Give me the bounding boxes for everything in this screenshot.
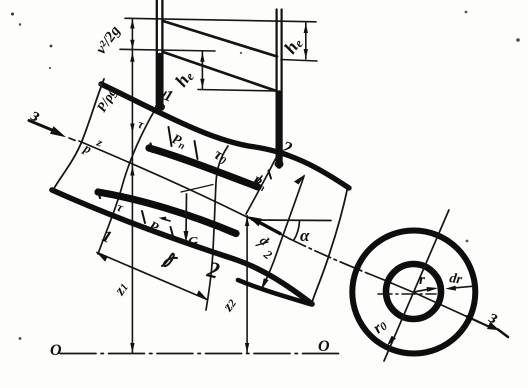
svg-text:1: 1 bbox=[162, 87, 176, 106]
svg-text:G: G bbox=[188, 235, 198, 250]
arrow: pressure force P2 on downstream face bbox=[254, 220, 280, 234]
ticks around Pn label 1 bbox=[169, 127, 172, 146]
arrows: p/pg bbox=[130, 52, 134, 62]
arrows on vertical dim line: v2/2g bbox=[130, 19, 134, 29]
svg-text:Рп: Рп bbox=[169, 132, 189, 153]
svg-text:1: 1 bbox=[100, 226, 115, 247]
arrow: flow direction s (bottom right) bbox=[487, 322, 500, 330]
arrows: z2 bbox=[245, 217, 249, 227]
tick near Pn label 3 bbox=[269, 171, 272, 179]
wire: piezometric level at section 2 (left of tube 2) bbox=[198, 90, 277, 92]
wire: energy level at section 2 (right of tube 2) bbox=[281, 60, 317, 62]
svg-text:dr: dr bbox=[448, 271, 463, 288]
svg-text:r: r bbox=[419, 272, 425, 288]
wire: piezometric level at section 1 bbox=[120, 49, 215, 51]
arrow: z1 down at datum bbox=[130, 343, 134, 353]
piezometer tube 2 bbox=[277, 10, 282, 167]
angle alpha arc bbox=[294, 221, 300, 241]
svg-text:z2: z2 bbox=[220, 295, 240, 315]
ticks around Pn label 2 bbox=[142, 211, 145, 223]
pipe axis centerline bbox=[69, 138, 75, 140]
svg-text:2: 2 bbox=[260, 247, 274, 262]
scan speck bbox=[516, 38, 520, 42]
svg-text:τ: τ bbox=[136, 117, 147, 132]
wire: sloping piezometric line between tubes bbox=[163, 52, 275, 91]
dimension: length l between sections bbox=[97, 253, 207, 300]
tick: upper bar left serif bbox=[151, 144, 153, 153]
svg-text:α: α bbox=[300, 226, 310, 245]
scan speck bbox=[19, 337, 22, 340]
svg-text:he: he bbox=[171, 66, 197, 91]
cross-section outer circle r0 bbox=[352, 231, 475, 354]
scan speck bbox=[98, 83, 101, 86]
junction blob tube1/wall bbox=[155, 103, 165, 111]
svg-text:he: he bbox=[280, 33, 306, 58]
wire: horizontal centerline at circle bbox=[378, 293, 436, 295]
break line right end bbox=[311, 186, 348, 305]
fluid element upper face (bar) bbox=[149, 148, 258, 187]
svg-text:v²/2g: v²/2g bbox=[93, 23, 124, 57]
wire: sloping energy line between tubes bbox=[163, 21, 277, 57]
svg-text:О: О bbox=[50, 342, 62, 359]
svg-text:τ0: τ0 bbox=[211, 146, 231, 168]
wire: he dimension line at tube 2 bbox=[305, 23, 307, 59]
arrows: he at tube2 bbox=[304, 24, 308, 34]
wire: vertical dimension line z2 bbox=[246, 216, 248, 353]
wire: section line 1-1 bbox=[98, 92, 166, 254]
wire: energy grade horizontal line bbox=[125, 18, 316, 22]
piezometer tube 1 bbox=[157, 0, 163, 108]
tick: lower bar left serif bbox=[98, 190, 101, 199]
svg-text:z1: z1 bbox=[112, 280, 132, 299]
wire: section line 2-2 upper part bbox=[246, 146, 282, 214]
scan speck top-left corner bbox=[11, 13, 14, 16]
wire: diameter d/2 dimension line bbox=[262, 176, 304, 288]
wire: horizontal reference for angle alpha bbox=[252, 219, 331, 222]
arrows: he at tube1 bbox=[200, 52, 204, 62]
arrow: radius r bbox=[415, 289, 431, 292]
arrow: r0 radius bbox=[387, 336, 396, 347]
svg-text:з: з bbox=[27, 104, 44, 127]
arrow: weight G bbox=[185, 194, 188, 238]
cylinder top wall bbox=[101, 84, 349, 188]
arrow: flow direction s (left) bbox=[29, 121, 52, 131]
svg-text:2: 2 bbox=[204, 256, 222, 283]
fluid element lower face (bar) bbox=[98, 192, 236, 234]
label l (length) bbox=[162, 254, 177, 266]
datum line O-O bbox=[60, 353, 343, 355]
small arrow near Pn label 2 bbox=[162, 219, 170, 221]
scan speck bbox=[240, 52, 242, 54]
wire: short rising construction line bbox=[181, 185, 213, 193]
cylinder bottom wall bbox=[52, 190, 312, 304]
scan speck bbox=[466, 240, 469, 243]
node: vertical dimension line through section 1 (v2/2g, p/pg, z1) bbox=[131, 19, 133, 353]
scan speck bbox=[50, 45, 53, 48]
wire: he dimension line at tube 1 bbox=[201, 52, 203, 89]
arrow: dr bbox=[450, 286, 472, 288]
wire: section line 2-2 lower part bbox=[206, 146, 228, 310]
svg-text:з: з bbox=[485, 306, 502, 329]
scan speck bbox=[465, 11, 468, 14]
svg-text:О: О bbox=[318, 338, 330, 355]
svg-text:z: z bbox=[94, 135, 105, 150]
break line left end bbox=[53, 79, 104, 190]
wire: section plane centerline (perpendicular) bbox=[384, 210, 449, 361]
arrow: up at axis on z1 line bbox=[130, 166, 134, 176]
cross-section inner circle r bbox=[386, 264, 441, 319]
